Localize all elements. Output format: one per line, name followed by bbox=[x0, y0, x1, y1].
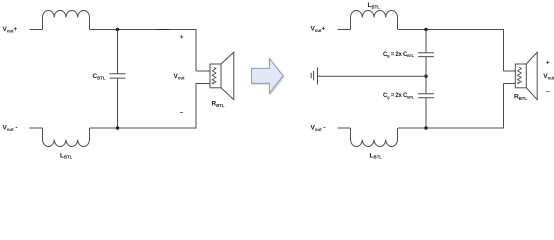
wire: right circuit bottom rail and up to speaker bbox=[398, 84, 504, 129]
capacitor C_BTL plates bbox=[110, 74, 126, 78]
svg-text:Vout: Vout bbox=[174, 73, 186, 80]
wire: speaker terminal stubs (left speaker) bbox=[196, 71, 210, 84]
svg-text:Vout -: Vout - bbox=[3, 125, 18, 132]
wire: bottom rail to bottom-right corner and up to speaker bbox=[90, 84, 197, 129]
svg-text:Vout: Vout bbox=[543, 73, 554, 80]
ground symbol bbox=[311, 67, 317, 84]
wire: right circuit bottom lead bbox=[338, 127, 351, 129]
wire: overlapped darker segment on top rail bbox=[156, 29, 171, 31]
junction dot (ground wire / capacitors midpoint) bbox=[424, 75, 427, 78]
wire: between Cg1 and Cg2 bbox=[425, 57, 427, 94]
svg-text:Cg = 2x CBTL: Cg = 2x CBTL bbox=[383, 52, 415, 58]
wire: left bottom lead bbox=[30, 127, 43, 129]
wire: Cg2 lower lead bbox=[425, 98, 427, 128]
svg-text:LBTL: LBTL bbox=[368, 2, 381, 9]
capacitor Cg2 plates bbox=[418, 94, 434, 98]
wire: ground to capacitors midpoint bbox=[318, 75, 427, 77]
wire: right circuit top rail and down to speaker bbox=[398, 30, 504, 72]
junction dot (bottom right rail / Cg2) bbox=[424, 126, 427, 129]
junction dot (top right rail / Cg1) bbox=[424, 28, 427, 31]
block arrow bbox=[252, 59, 284, 94]
svg-text:+: + bbox=[180, 34, 184, 41]
svg-text:Vout+: Vout+ bbox=[311, 26, 326, 33]
speaker R_BTL driver box (right) bbox=[515, 64, 526, 88]
svg-text:RBTL: RBTL bbox=[212, 101, 225, 108]
junction dot (bottom left rail / capacitor) bbox=[116, 126, 119, 129]
inductor (top left, unlabeled) bbox=[43, 11, 90, 30]
svg-text:Vout+: Vout+ bbox=[3, 26, 18, 33]
resistor zigzag voice coil (right speaker) bbox=[518, 67, 522, 84]
svg-text:–: – bbox=[180, 109, 184, 116]
svg-text:+: + bbox=[546, 60, 550, 67]
svg-text:–: – bbox=[546, 88, 550, 95]
block arrow shadow bbox=[253, 60, 285, 95]
wire: top rail to top-right corner and down to speaker bbox=[90, 30, 197, 72]
wire: capacitor upper lead bbox=[117, 30, 119, 74]
inductor L_BTL (top right) bbox=[351, 11, 398, 30]
wire: right circuit top lead bbox=[338, 29, 351, 31]
speaker R_BTL driver box (left) bbox=[210, 64, 221, 88]
capacitor Cg1 plates bbox=[418, 53, 434, 57]
svg-text:RBTL: RBTL bbox=[514, 94, 527, 101]
wire: speaker terminal stubs (right speaker) bbox=[504, 71, 516, 84]
svg-text:LBTL: LBTL bbox=[60, 152, 73, 159]
svg-text:Vout -: Vout - bbox=[311, 125, 326, 132]
speaker cone (left) bbox=[221, 52, 234, 99]
wire: left top lead bbox=[30, 29, 43, 31]
svg-text:Cg = 2x CBTL: Cg = 2x CBTL bbox=[383, 93, 415, 99]
inductor L_BTL (bottom right) bbox=[351, 128, 398, 147]
speaker cone (right) bbox=[526, 52, 537, 99]
wire: capacitor lower lead bbox=[117, 78, 119, 128]
svg-text:LBTL: LBTL bbox=[370, 152, 383, 159]
svg-text:CBTL: CBTL bbox=[93, 73, 106, 80]
wire: Cg1 upper lead bbox=[425, 30, 427, 53]
resistor zigzag voice coil (left speaker) bbox=[212, 67, 216, 84]
inductor L_BTL (bottom left) bbox=[43, 128, 90, 147]
junction dot (top left rail / capacitor) bbox=[116, 28, 119, 31]
